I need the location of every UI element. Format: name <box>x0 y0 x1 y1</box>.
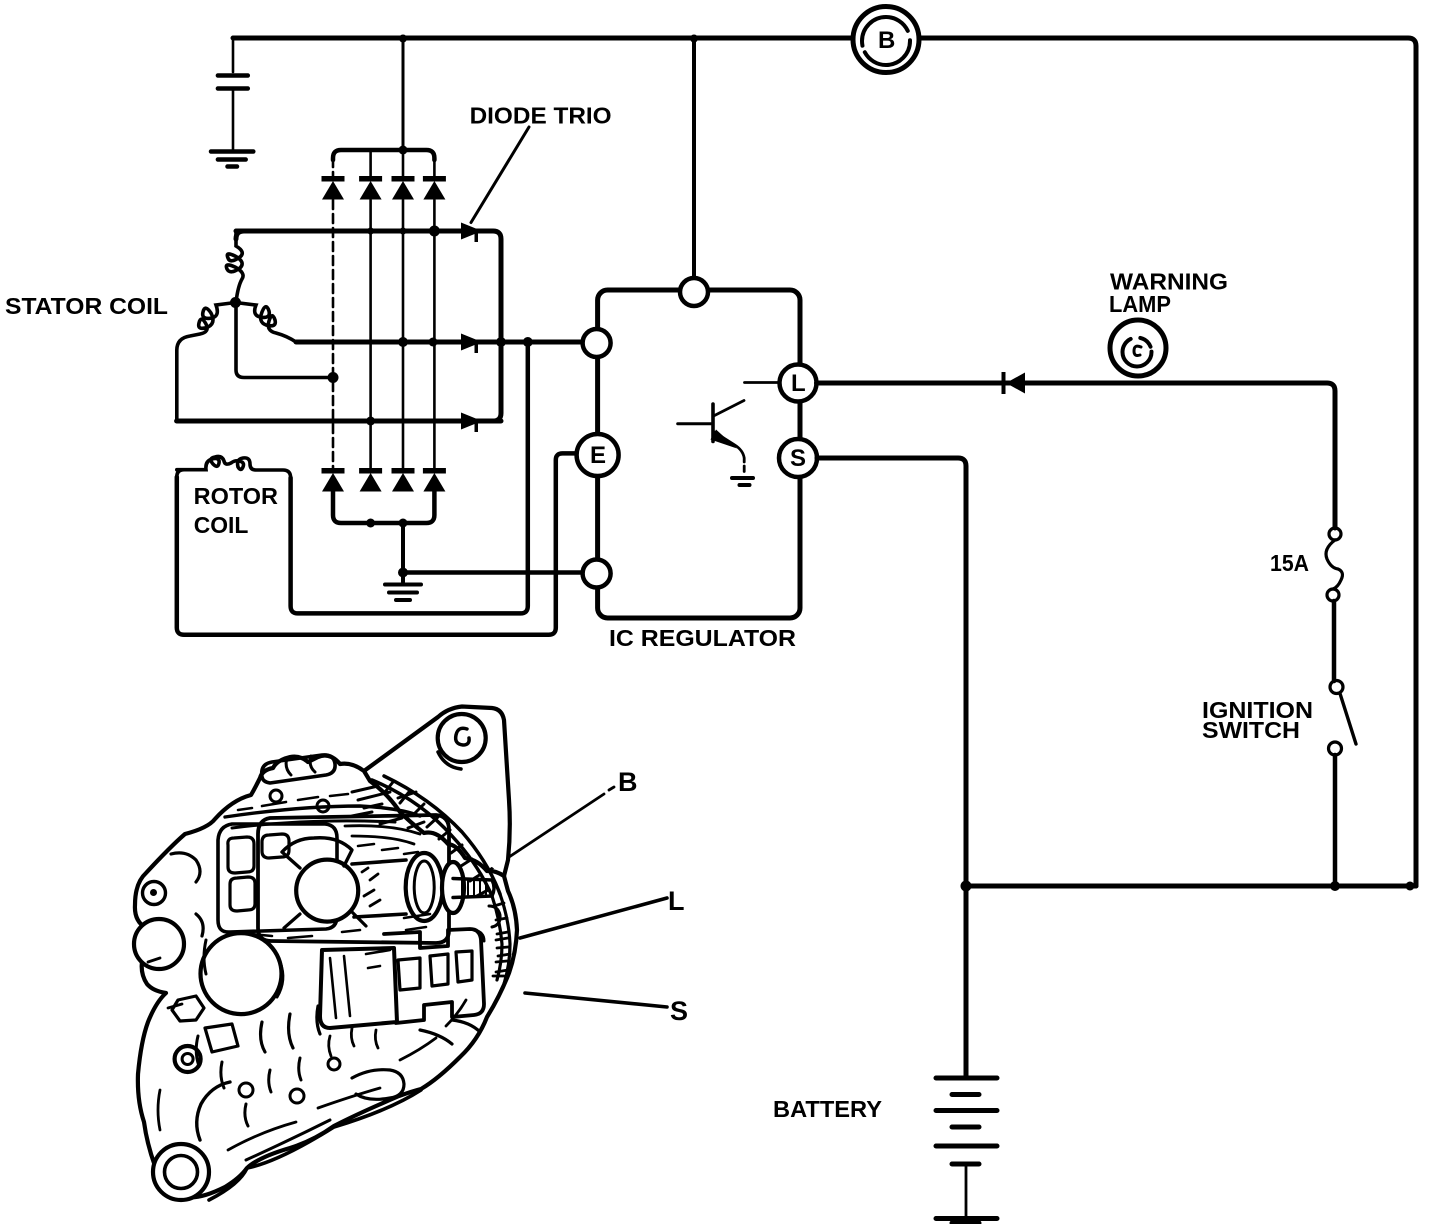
alternator mounting bracket <box>364 707 510 877</box>
B terminal circle <box>853 7 919 73</box>
wire battery to ground <box>965 1166 968 1216</box>
wire diode column 2 <box>369 150 372 468</box>
node bottom bus / column 2 <box>366 519 375 528</box>
terminal E <box>577 434 619 476</box>
terminal node left lower <box>583 560 611 588</box>
fuse 15A <box>1329 528 1341 540</box>
alternator body outline <box>135 756 517 1198</box>
leader line B <box>491 787 614 869</box>
wire phase A (top) <box>236 231 501 421</box>
diode trio arrow 2 <box>461 334 482 354</box>
svg-text:L: L <box>668 886 685 916</box>
node bottom bus / column 3 <box>399 519 408 528</box>
svg-text:LAMP: LAMP <box>1109 291 1171 317</box>
stator coil branch A loops <box>226 231 243 302</box>
terminal L <box>780 365 817 402</box>
diode D6 <box>359 468 382 492</box>
node phase B / column 4 <box>429 338 438 347</box>
alternator hatching top <box>352 786 424 828</box>
warning lamp center mark <box>1134 346 1141 355</box>
wire ground node to regulator lower-left <box>403 570 583 575</box>
node S wire / bottom bus <box>961 881 972 892</box>
terminal S <box>779 439 817 477</box>
ignition switch <box>1330 681 1343 694</box>
wire bottom bus <box>966 884 1416 889</box>
alternator top lug <box>262 755 335 783</box>
diode D3 <box>392 176 415 200</box>
svg-text:B: B <box>878 27 895 54</box>
leader line diode trio <box>471 127 529 223</box>
alternator sketch shading <box>238 794 348 810</box>
node bottom bus right corner <box>1406 882 1415 891</box>
diode bridge bottom bus <box>333 492 434 524</box>
alternator shaft disc <box>406 853 443 921</box>
svg-text:S: S <box>670 996 688 1026</box>
svg-text:ROTOR: ROTOR <box>194 483 279 509</box>
svg-text:15A: 15A <box>1270 550 1309 576</box>
node phase A / column 4 <box>429 226 440 237</box>
stator coil neutral tap wire <box>236 303 333 378</box>
alternator left lug circles <box>134 919 184 969</box>
wire phase C (bottom) <box>177 419 501 424</box>
stator coil right arm <box>236 303 297 343</box>
wire fuse to switch <box>1332 601 1337 681</box>
diode arrow to L <box>1002 372 1026 394</box>
wire top bus B+ <box>233 38 1416 886</box>
diode D4 <box>423 176 446 200</box>
diode bridge top bus <box>333 150 434 160</box>
node switch / bottom bus <box>1330 881 1340 891</box>
wire switch to bottom bus <box>1333 755 1338 886</box>
IC regulator box U1 <box>598 290 800 618</box>
svg-text:STATOR COIL: STATOR COIL <box>5 293 168 319</box>
stator coil left arm <box>177 303 236 422</box>
alternator left frame <box>218 824 337 932</box>
diode D8 <box>423 468 446 492</box>
alternator foot ring <box>153 1144 209 1200</box>
alternator brush holder box <box>320 948 397 1028</box>
node neutral / column 1 <box>328 372 339 383</box>
leader line S <box>525 993 667 1007</box>
node diode bus / column 3 <box>399 146 408 155</box>
ground (main) <box>385 573 421 601</box>
alternator top cover edges <box>225 806 420 817</box>
terminal node top <box>680 278 708 306</box>
node top wire / diode column 3 <box>399 35 407 43</box>
diode D2 <box>359 176 382 200</box>
alternator bracket hole <box>438 714 486 762</box>
svg-text:SWITCH: SWITCH <box>1202 717 1300 743</box>
alternator stator rim serration <box>372 780 492 896</box>
alternator shaft collar <box>442 862 464 913</box>
alternator shaft <box>352 860 406 917</box>
node phase A / column 2 <box>367 228 374 235</box>
diode trio arrow 1 <box>461 223 482 243</box>
transistor Q1 collector <box>714 383 779 417</box>
wire diode column 1 (dashed) <box>332 158 335 468</box>
alternator center frame <box>258 815 449 943</box>
diode D5 <box>322 468 345 492</box>
alternator bottom-left bolt <box>175 1046 201 1072</box>
svg-text:L: L <box>791 370 806 397</box>
diode D1 <box>322 176 345 200</box>
wire phase B (middle) to regulator <box>296 340 583 345</box>
ALTERNATOR <box>134 707 517 1201</box>
battery plates <box>936 1078 997 1164</box>
diode trio arrow 3 <box>461 413 482 433</box>
alternator rim serration lower <box>492 894 510 984</box>
svg-text:IC REGULATOR: IC REGULATOR <box>609 625 796 651</box>
wire column 3 to ground node <box>401 523 405 573</box>
transistor Q1 bar <box>711 404 715 442</box>
node phase B / column 3 <box>398 337 408 347</box>
alternator rotor boss circle <box>296 860 358 922</box>
ground (battery) <box>936 1219 997 1224</box>
node top wire / regulator B <box>690 35 698 43</box>
transistor Q1 emitter arrow <box>711 430 738 449</box>
node phase B / trio bus <box>496 337 506 347</box>
rotor coil box left/bottom to E <box>177 453 577 634</box>
stator coil node (neutral) <box>230 297 241 308</box>
node phase B / rotor feed <box>523 337 533 347</box>
wire diode column 4 <box>433 158 436 468</box>
node phase C / column 2 <box>366 417 375 426</box>
ground (capacitor) <box>211 152 253 167</box>
alternator frame slots <box>228 837 254 873</box>
transistor Q1 base <box>678 422 711 425</box>
capacitor C1 <box>218 76 248 89</box>
terminal node left upper <box>583 329 611 357</box>
alternator right side details <box>474 906 500 941</box>
warning lamp filament <box>1123 338 1152 367</box>
wire capacitor lead <box>232 38 235 72</box>
transistor Q1 emitter <box>714 432 745 472</box>
svg-text:BATTERY: BATTERY <box>773 1096 882 1122</box>
alternator big left circle <box>201 933 282 1014</box>
transistor ground <box>732 478 753 485</box>
svg-text:B: B <box>618 767 638 797</box>
wire L to lamp and fuse <box>817 383 1336 528</box>
wire B+ to regulator top <box>692 38 696 277</box>
svg-text:S: S <box>790 445 806 472</box>
svg-text:E: E <box>590 442 606 469</box>
alternator bottom arcs <box>209 1090 421 1200</box>
node ground junction <box>398 568 408 578</box>
rotor coil right side to field feed <box>291 342 528 613</box>
warning lamp <box>1110 320 1166 376</box>
leader line L <box>520 898 667 938</box>
diode D7 <box>392 468 415 492</box>
alternator top rivets <box>270 790 282 802</box>
rotor coil box top and loops <box>177 457 291 478</box>
wire B+ to diode bus <box>402 38 405 150</box>
wire capacitor to ground <box>232 90 235 149</box>
svg-text:COIL: COIL <box>194 512 249 538</box>
alternator B stud <box>453 879 494 898</box>
alternator connector block <box>384 929 484 1023</box>
node phase A / column 3 <box>400 228 407 235</box>
alternator bottom details <box>239 1083 253 1097</box>
svg-text:DIODE TRIO: DIODE TRIO <box>470 103 612 129</box>
wire diode column 3 <box>402 150 405 468</box>
wire S to battery <box>817 458 966 1077</box>
